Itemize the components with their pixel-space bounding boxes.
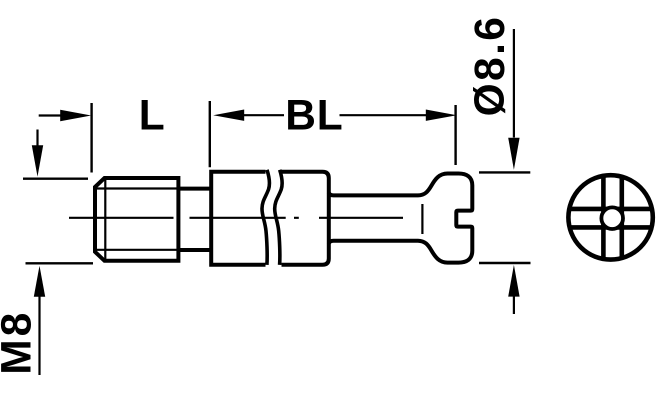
diameter dimension line bottom xyxy=(513,296,515,314)
thread root line bottom xyxy=(95,249,178,251)
svg-text:M8: M8 xyxy=(0,310,40,375)
extension line between L and BL xyxy=(209,101,211,167)
M8 dimension arrow bottom (pointing up) xyxy=(38,297,40,376)
L dimension arrow (outside, pointing right) xyxy=(39,114,61,116)
break line left xyxy=(262,170,270,265)
M8 dimension arrow top (pointing down) xyxy=(36,130,38,147)
centerline xyxy=(69,217,403,219)
collar outline xyxy=(211,172,329,265)
thread M8 body outline xyxy=(95,178,178,261)
break line right xyxy=(275,170,283,265)
L extension line left xyxy=(90,103,92,173)
thread chamfer line xyxy=(104,178,106,261)
diameter dimension line top xyxy=(513,29,515,138)
M8 extension line top xyxy=(23,177,88,179)
shaft and head outline xyxy=(329,174,473,263)
diameter extension line top xyxy=(479,171,530,173)
neck between thread and collar xyxy=(178,189,211,250)
diameter extension line bottom xyxy=(479,262,531,264)
BL dimension line with arrows xyxy=(213,110,244,121)
front view center circle xyxy=(601,207,623,229)
svg-text:Ø8.6: Ø8.6 xyxy=(467,15,514,117)
front view outer circle xyxy=(568,175,652,259)
svg-text:BL: BL xyxy=(285,92,343,139)
thread root line top xyxy=(95,187,178,189)
M8 extension line bottom xyxy=(26,262,94,264)
BL extension line right xyxy=(454,105,456,165)
svg-text:L: L xyxy=(139,92,165,139)
head flare tangent line xyxy=(421,204,423,234)
